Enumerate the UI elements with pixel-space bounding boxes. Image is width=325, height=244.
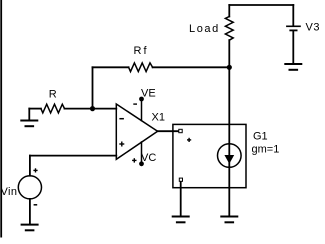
svg-text:VC: VC [141,152,156,164]
svg-text:Load: Load [189,23,220,35]
svg-text:V3: V3 [306,22,321,34]
svg-text:gm=1: gm=1 [252,144,280,156]
svg-text:Vin: Vin [1,186,18,198]
svg-text:X1: X1 [152,112,165,124]
svg-text:R: R [49,89,57,101]
svg-text:VE: VE [141,88,156,100]
svg-text:G1: G1 [253,131,268,143]
svg-text:Rf: Rf [134,45,149,57]
